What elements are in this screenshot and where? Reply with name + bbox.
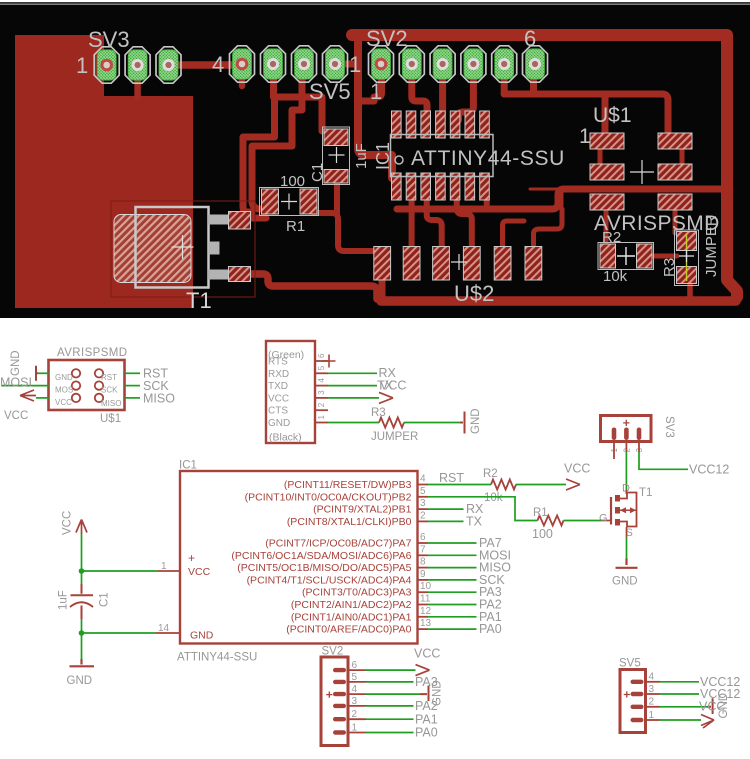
svg-text:AVRISPSMD: AVRISPSMD [57, 347, 127, 359]
USB connector U$2 origin cross [451, 254, 467, 270]
ground symbol at SV5 [708, 698, 713, 714]
wire U$2 pad5 stub [503, 221, 525, 246]
header SV2 pad 2 [399, 46, 424, 82]
svg-text:(Black): (Black) [269, 432, 302, 444]
svg-text:MISO: MISO [101, 399, 121, 408]
wire VCC rail down [81, 534, 83, 571]
wire PB2 jog to R1 [428, 497, 538, 521]
junction at pin14 rail [79, 630, 85, 636]
ground pour polygon [15, 35, 193, 308]
transistor T1 origin cross [172, 235, 194, 259]
ISP header U$1 pads [590, 133, 692, 210]
FTDI pin stubs [315, 361, 328, 423]
resistor R3 pads [677, 232, 697, 251]
svg-text:2: 2 [649, 697, 655, 708]
wire vertical from top trace to IC pad1 [358, 40, 392, 178]
wire SV3 pad1 stub [99, 62, 107, 69]
svg-text:R3: R3 [371, 407, 386, 419]
wire C1 to junction2 [81, 619, 83, 633]
connector SV3 slots [612, 428, 642, 441]
vcc symbol arrow right [379, 392, 393, 403]
vcc symbol arrow up left rail [76, 520, 87, 535]
header SV2 pad 3 [430, 46, 455, 82]
wire SV2 pin2 PA1 [366, 718, 414, 720]
svg-text:SCK: SCK [101, 386, 118, 395]
vcc symbol arrow left [20, 390, 36, 401]
junction at pin1 rail [79, 568, 85, 574]
svg-text:T1: T1 [639, 487, 652, 499]
wire RXD to RX [328, 372, 377, 374]
wire SV3 pad2 stub into pour [134, 68, 141, 97]
svg-text:4: 4 [352, 684, 358, 695]
T1 body bracket [627, 493, 637, 527]
svg-text:6: 6 [524, 26, 536, 51]
wire drop to U$1 top-left pad [602, 94, 609, 136]
svg-text:4: 4 [420, 474, 426, 485]
SV3 pin numbers rotated [610, 448, 644, 453]
svg-text:SV5: SV5 [309, 79, 351, 104]
T1 drain connection [617, 493, 627, 499]
svg-text:SV3: SV3 [663, 416, 675, 438]
svg-text:IC1: IC1 [179, 460, 197, 472]
wire U$1 bottom-right pad to R3 pad1 [673, 206, 678, 233]
header SV3 pad 1 [94, 47, 119, 83]
header SV2 pad 1 [369, 46, 394, 82]
wire VCC horizontal y94 [504, 94, 668, 136]
svg-text:U$2: U$2 [454, 281, 494, 306]
svg-text:U$1: U$1 [100, 413, 121, 425]
svg-text:10k: 10k [603, 268, 628, 285]
ground symbol below T1 [616, 559, 638, 568]
svg-text:GND: GND [268, 418, 290, 429]
wire TX [428, 520, 464, 522]
svg-text:JUMPER: JUMPER [703, 215, 720, 277]
SV2 pin stubs [348, 670, 366, 732]
svg-text:RTS: RTS [268, 357, 288, 368]
svg-text:VCC: VCC [268, 393, 289, 404]
svg-text:VCC: VCC [62, 511, 74, 535]
connector SV3 box [601, 416, 652, 442]
svg-text:(PCINT1/AIN0/ADC1)PA1: (PCINT1/AIN0/ADC1)PA1 [291, 611, 412, 623]
FTDI pin names [268, 357, 290, 430]
svg-text:MISO: MISO [143, 392, 175, 406]
header SV3 pad 3 [156, 47, 181, 83]
svg-text:GND: GND [190, 630, 214, 642]
wire SV5 pin1 to VCC arrow [660, 719, 701, 721]
connector SV2 slots [333, 668, 346, 735]
svg-text:MOSI: MOSI [0, 376, 32, 390]
svg-text:100: 100 [532, 527, 553, 541]
svg-text:1: 1 [161, 561, 167, 572]
svg-text:5: 5 [420, 486, 426, 497]
svg-text:TX: TX [466, 514, 483, 528]
wire SV3 pin3 to VCC12 [639, 452, 688, 469]
board top border [0, 0, 750, 2]
wire R2 to VCC [516, 484, 566, 486]
svg-text:(PCINT10/INT0/OC0A/CKOUT)PB2: (PCINT10/INT0/OC0A/CKOUT)PB2 [245, 491, 412, 503]
svg-text:PA2: PA2 [415, 699, 438, 713]
resistor R2 zigzag [491, 480, 516, 490]
wire SV5 pin2 to GND [660, 706, 708, 708]
svg-text:1: 1 [349, 52, 361, 77]
SV2 pin numbers [352, 660, 358, 733]
wire top VCC trace to right edge [352, 35, 737, 297]
wire rail down to C1 [81, 571, 83, 584]
IC1 package outline [391, 135, 494, 177]
svg-text:(PCINT2/AIN1/ADC2)PA2: (PCINT2/AIN1/ADC2)PA2 [291, 599, 412, 611]
svg-text:PA0: PA0 [415, 726, 438, 740]
svg-text:(PCINT0/AREF/ADC0)PA0: (PCINT0/AREF/ADC0)PA0 [286, 624, 411, 636]
svg-text:TXD: TXD [268, 381, 288, 392]
connector SV2 box [321, 657, 348, 746]
wire T1 tab to R1 pad1 [238, 215, 266, 222]
wire SV5 pin3 VCC12 [660, 693, 699, 695]
wire SV2 pad1 jog to GND vertical [362, 66, 382, 101]
svg-text:PA0: PA0 [479, 622, 502, 636]
header SV5 pad 4 [323, 46, 348, 82]
svg-text:11: 11 [420, 594, 431, 605]
wire TXD to TX [328, 385, 377, 387]
svg-text:SV5: SV5 [619, 658, 641, 670]
svg-text:4: 4 [649, 672, 655, 683]
svg-text:R1: R1 [286, 218, 305, 235]
svg-text:G: G [599, 513, 608, 525]
wire SV3 pin2 to T1 drain [625, 452, 627, 490]
wire SV5 pad4 to vertical [335, 61, 358, 68]
wire SV2 pin1 PA0 [366, 732, 414, 734]
svg-text:(PCINT7/ICP/OC0B/ADC7)PA7: (PCINT7/ICP/OC0B/ADC7)PA7 [265, 538, 411, 550]
SV2 polarity plus [326, 692, 332, 698]
wire SV2 pad5 down to VCC horizontal [501, 66, 508, 94]
svg-text:3: 3 [352, 696, 358, 707]
wire IC bottom pad7 stub [484, 196, 490, 208]
ground symbol rotated at U$1 [36, 366, 38, 381]
svg-text:VCC: VCC [55, 398, 72, 407]
svg-text:R2: R2 [602, 229, 621, 246]
T1 gate bar [610, 497, 612, 525]
svg-text:RXD: RXD [268, 369, 289, 380]
svg-text:IC1: IC1 [373, 142, 393, 170]
ISP header U$1 origin cross [630, 160, 654, 184]
wire SV3 pad3 to SV5 pad1 [168, 61, 242, 69]
svg-text:GND: GND [10, 350, 22, 376]
wire SV2 pin3 PA2 [366, 705, 414, 707]
wire T1 source to GND [626, 527, 628, 537]
capacitor C1 outline [323, 127, 350, 185]
resistor R1 zigzag [538, 516, 564, 526]
header SV5 pad 1 [230, 46, 255, 82]
connector U$1 box [49, 360, 125, 410]
resistor R1 pads [262, 189, 279, 214]
wire U$1 left column link [598, 146, 603, 166]
SV5 polarity plus [624, 691, 630, 697]
wire SV5 pad3 staircase to R1 pad1 [252, 66, 302, 209]
resistor R2 outline [598, 243, 654, 270]
IC1 right pin numbers [420, 474, 432, 630]
svg-text:RST: RST [439, 471, 464, 485]
svg-text:ATTINY44-SSU: ATTINY44-SSU [411, 147, 565, 170]
svg-text:GND: GND [470, 408, 482, 434]
wire R2 pad2 to R3 [650, 254, 677, 259]
wire SV2 pad4 to IC top pad5 [459, 66, 474, 120]
svg-text:(PCINT9/XTAL2)PB1: (PCINT9/XTAL2)PB1 [313, 504, 412, 516]
wire VCC row [328, 397, 379, 399]
svg-text:(PCINT3/T0/ADC3)PA3: (PCINT3/T0/ADC3)PA3 [302, 587, 412, 599]
SV5 pin numbers [649, 672, 655, 721]
wire R3 to GND [404, 422, 460, 424]
svg-text:10: 10 [420, 581, 432, 592]
capacitor C1 pads [324, 129, 348, 146]
T1 body arrows [620, 507, 626, 513]
header SV2 pad 4 [461, 46, 486, 82]
svg-text:(PCINT6/OC1A/SDA/MOSI/ADC6)PA6: (PCINT6/OC1A/SDA/MOSI/ADC6)PA6 [231, 550, 411, 562]
svg-text:7: 7 [420, 544, 426, 555]
transistor T1 leads [208, 215, 229, 225]
wire U$1 bottom-left pad to R2 pad1 [604, 206, 609, 246]
svg-text:1uF: 1uF [353, 143, 370, 169]
wire branch SV5 pad2 staircase to T1 tab [243, 97, 275, 212]
IC1 SOIC14 bottom pad row [392, 173, 490, 200]
svg-text:T1: T1 [186, 288, 212, 313]
wire SV2 pad6 down and VCC horizontal to U$1 [530, 66, 537, 94]
T1 gate wire red [602, 520, 612, 522]
resistor R3 origin cross [679, 250, 694, 262]
RTS no-connect cross [323, 355, 336, 368]
svg-text:RST: RST [101, 373, 117, 382]
header SV2 pad 6 [523, 46, 548, 82]
svg-text:R3: R3 [661, 258, 678, 277]
vcc symbol arrow right [416, 665, 430, 676]
wire R1 to T1 gate [564, 520, 602, 522]
wire U$1 right column link [680, 146, 685, 166]
IC1 right pin names [231, 479, 411, 636]
svg-text:3: 3 [649, 684, 655, 695]
wire R1 pad2 to U$2 pad1 [314, 213, 376, 251]
resistor R2 origin cross [617, 247, 635, 265]
wire SV2 pin4 to GND [366, 693, 420, 695]
svg-text:4: 4 [212, 52, 224, 77]
wire U$1 pin4 SCK [125, 385, 141, 387]
wire U$2 pad4 to IC bottom pad5 [457, 198, 472, 246]
svg-text:6: 6 [317, 353, 326, 358]
wire SV5 pad2 to C1 top pad [274, 66, 323, 131]
capacitor C1 origin cross [329, 147, 345, 163]
IC1 pin1 circle [395, 156, 403, 164]
connector JP1 FTDI box [266, 341, 315, 443]
connector U$1 pin names [55, 373, 121, 408]
wire SV2 pin5 PA3 [366, 681, 414, 683]
svg-text:R1: R1 [533, 507, 548, 519]
wires PA7..PA0 [428, 543, 477, 629]
IC1 box [180, 471, 418, 644]
svg-text:C1: C1 [309, 163, 326, 182]
wire U$1 pin5 to VCC [36, 397, 49, 399]
svg-text:1: 1 [579, 125, 591, 148]
USB connector U$2 pads [374, 247, 542, 281]
wire rail to IC pin14 [82, 632, 157, 634]
connector U$1 pin circles [72, 369, 103, 402]
resistor R1 origin cross [281, 194, 297, 210]
PCB silk texts [76, 26, 720, 313]
svg-text:1uF: 1uF [58, 590, 70, 610]
svg-text:14: 14 [158, 623, 170, 634]
wire SV2 pad2 to IC top pad3 [412, 66, 427, 114]
wire GND row to R3 [328, 422, 379, 424]
svg-text:SV3: SV3 [88, 27, 130, 52]
svg-text:VCC12: VCC12 [689, 463, 729, 477]
IC1 pin1 stub [158, 570, 180, 572]
svg-text:2: 2 [317, 402, 326, 407]
svg-text:9: 9 [420, 569, 426, 580]
svg-text:6: 6 [420, 532, 426, 543]
T1 body line [617, 509, 637, 511]
IC1 SOIC14 top pad row [392, 111, 490, 138]
wire C1 bottom pad down [334, 181, 340, 213]
ground symbol left rail [70, 659, 95, 666]
svg-text:1: 1 [76, 53, 88, 78]
transistor T1 pin pads [229, 212, 251, 230]
svg-text:VCC: VCC [4, 410, 28, 422]
net labels PA7..PA0 [479, 536, 511, 636]
svg-text:6: 6 [352, 660, 358, 671]
wire RX [428, 508, 464, 510]
svg-text:5: 5 [317, 365, 326, 370]
ground symbol at R3 [460, 412, 465, 434]
svg-text:VCC: VCC [564, 462, 590, 476]
wire T1 pad2 to bottom area [240, 274, 377, 299]
wire U$2 pad3 to IC bottom pad3 [427, 198, 442, 246]
header SV5 pad 3 [292, 46, 317, 82]
connector SV5 slots [631, 680, 644, 723]
wire U$1 pin2 RST [125, 372, 141, 374]
resistor R2 pads [600, 244, 616, 268]
resistor R3 zigzag [379, 418, 404, 428]
SV5 pin stubs [646, 682, 661, 720]
svg-text:100: 100 [280, 173, 305, 190]
svg-text:GND: GND [612, 576, 638, 588]
SV3 polarity plus [623, 420, 629, 426]
svg-text:GND: GND [67, 675, 93, 687]
FTDI pin numbers rotated [317, 353, 326, 420]
svg-text:1: 1 [317, 415, 326, 420]
svg-text:VCC: VCC [380, 378, 406, 392]
svg-text:JUMPER: JUMPER [371, 431, 418, 443]
svg-text:3: 3 [317, 390, 326, 395]
header SV5 pad 2 [261, 46, 286, 82]
svg-text:SV2: SV2 [366, 26, 408, 51]
transistor T1 courtyard [111, 201, 255, 297]
svg-text:(PCINT5/OC1B/MISO/DO/ADC5)PA5: (PCINT5/OC1B/MISO/DO/ADC5)PA5 [237, 562, 411, 574]
wire thin stub left of bus [530, 188, 558, 191]
PCB board black background [0, 0, 750, 318]
capacitor C1 [70, 584, 93, 619]
SV3 pin stubs [614, 442, 639, 460]
vcc symbol arrow right SV5 [701, 715, 714, 729]
wire SV2 pin6 to VCC [366, 669, 416, 671]
wire T1 drain stub [625, 490, 627, 494]
svg-text:CTS: CTS [268, 406, 288, 417]
svg-text:5: 5 [352, 672, 358, 683]
header SV2 pad 5 [492, 46, 517, 82]
header SV3 pad 2 [125, 47, 150, 83]
IC1 right pin stubs [418, 485, 429, 630]
svg-text:VCC: VCC [188, 566, 211, 578]
resistor R3 outline [675, 230, 699, 286]
svg-text:U$1: U$1 [593, 104, 632, 127]
svg-text:C1: C1 [99, 592, 111, 607]
wire U$1 pin3 MOSI [1, 385, 49, 387]
resistor R1 outline [260, 188, 319, 216]
wire U$2 pad2 to IC bottom pad2 [409, 198, 415, 246]
svg-text:2: 2 [352, 709, 358, 720]
wire RST to R2 [428, 484, 491, 486]
wire rail down to GND [81, 633, 83, 659]
svg-text:1: 1 [352, 722, 358, 733]
svg-text:10k: 10k [484, 492, 503, 504]
T1 channel dashes [615, 495, 620, 526]
svg-text:(PCINT8/XTAL1/CLKI)PB0: (PCINT8/XTAL1/CLKI)PB0 [287, 516, 412, 528]
svg-text:1: 1 [649, 710, 655, 721]
wire R3 pad2 to bottom bus [687, 280, 693, 298]
wire U$1 pin6 MISO [125, 397, 141, 399]
svg-text:+: + [188, 551, 195, 565]
wire U$2 pad6 up to AVRISP area [534, 209, 563, 246]
svg-text:MOS: MOS [55, 386, 73, 395]
connector SV5 box [620, 670, 646, 733]
svg-text:(PCINT4/T1/SCL/USCK/ADC4)PA4: (PCINT4/T1/SCL/USCK/ADC4)PA4 [247, 574, 412, 586]
vcc symbol arrow right [566, 479, 580, 490]
schematic white background [0, 318, 750, 759]
svg-text:13: 13 [420, 618, 432, 629]
transistor T1 tab pad [114, 215, 191, 283]
svg-text:2: 2 [420, 510, 426, 521]
svg-text:(PCINT11/RESET/DW)PB3: (PCINT11/RESET/DW)PB3 [284, 479, 412, 491]
svg-text:PA1: PA1 [415, 712, 438, 726]
wire U$1 pin1 to GND [38, 372, 49, 374]
IC1 pin14 stub [156, 632, 180, 634]
ground symbol at SV2 [420, 686, 429, 702]
svg-text:GND: GND [55, 373, 73, 382]
T1 source connection [617, 522, 627, 528]
wire IC bottom bus to right [397, 189, 721, 209]
resistor R3 airwire [686, 234, 688, 281]
svg-text:VCC: VCC [414, 647, 440, 661]
svg-text:ATTINY44-SSU: ATTINY44-SSU [177, 652, 257, 664]
wire rail to IC pin1 [82, 570, 159, 572]
wire U$2 pad1 to bottom bus [379, 262, 386, 300]
svg-text:1: 1 [370, 79, 382, 104]
svg-text:GND: GND [718, 693, 730, 719]
wire SV5 pad1 stub [239, 66, 246, 86]
svg-text:8: 8 [420, 557, 426, 568]
wire SV5 pin4 VCC12 [660, 681, 699, 683]
svg-text:4: 4 [317, 378, 326, 383]
wire SV2 pad3 to IC top pad4 [439, 66, 446, 114]
svg-text:12: 12 [420, 606, 432, 617]
transistor T1 package outline [136, 207, 209, 288]
svg-text:3: 3 [420, 498, 426, 509]
wire bottom ground bus [381, 296, 736, 306]
svg-text:R2: R2 [483, 468, 498, 480]
wire thin link up [561, 190, 564, 209]
transistor T1 mosfet symbol [602, 493, 637, 528]
